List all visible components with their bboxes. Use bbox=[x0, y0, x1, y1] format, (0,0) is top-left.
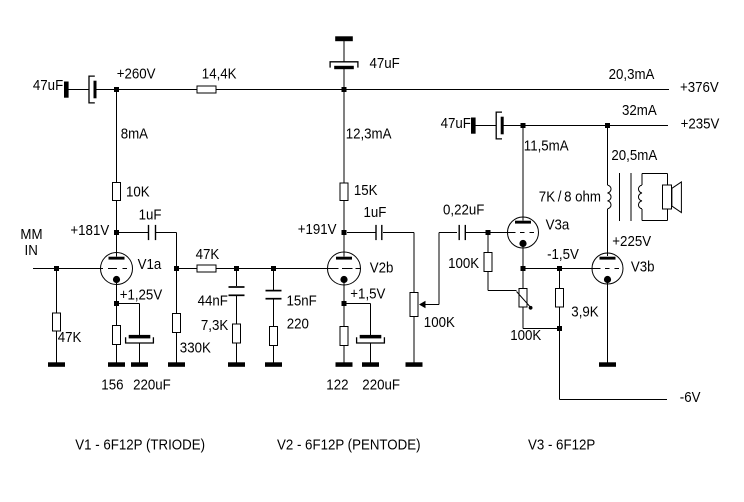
svg-text:330K: 330K bbox=[180, 340, 212, 356]
svg-text:+225V: +225V bbox=[612, 234, 652, 250]
svg-text:V2b: V2b bbox=[370, 260, 394, 276]
svg-text:14,4K: 14,4K bbox=[202, 66, 237, 82]
svg-text:-6V: -6V bbox=[680, 390, 701, 406]
svg-text:47uF: 47uF bbox=[370, 56, 400, 72]
svg-text:V1 - 6F12P (TRIODE): V1 - 6F12P (TRIODE) bbox=[75, 437, 205, 453]
svg-text:220uF: 220uF bbox=[133, 377, 171, 393]
svg-text:+1,25V: +1,25V bbox=[120, 287, 163, 303]
svg-text:47K: 47K bbox=[58, 329, 82, 345]
svg-text:V3b: V3b bbox=[631, 259, 655, 275]
svg-text:1uF: 1uF bbox=[139, 207, 162, 223]
svg-text:10K: 10K bbox=[126, 184, 150, 200]
svg-text:15nF: 15nF bbox=[287, 293, 317, 309]
svg-text:+376V: +376V bbox=[680, 80, 720, 96]
svg-text:15K: 15K bbox=[354, 182, 378, 198]
svg-text:MM: MM bbox=[20, 226, 42, 242]
svg-text:220: 220 bbox=[287, 316, 309, 332]
svg-text:+1,5V: +1,5V bbox=[350, 286, 386, 302]
svg-text:100K: 100K bbox=[510, 328, 542, 344]
svg-text:-1,5V: -1,5V bbox=[547, 247, 580, 263]
svg-text:20,5mA: 20,5mA bbox=[611, 148, 658, 164]
svg-text:100K: 100K bbox=[424, 315, 456, 331]
svg-text:20,3mA: 20,3mA bbox=[609, 67, 656, 83]
svg-text:V3 - 6F12P: V3 - 6F12P bbox=[528, 437, 595, 453]
svg-text:122: 122 bbox=[326, 377, 348, 393]
svg-text:+181V: +181V bbox=[70, 223, 110, 239]
svg-text:47uF: 47uF bbox=[33, 78, 63, 94]
svg-text:7K / 8 ohm: 7K / 8 ohm bbox=[539, 189, 601, 205]
svg-text:V2 - 6F12P (PENTODE): V2 - 6F12P (PENTODE) bbox=[277, 437, 421, 453]
svg-text:+191V: +191V bbox=[298, 221, 338, 237]
svg-text:IN: IN bbox=[25, 242, 38, 258]
svg-text:3,9K: 3,9K bbox=[571, 304, 599, 320]
svg-text:100K: 100K bbox=[448, 255, 480, 271]
svg-text:7,3K: 7,3K bbox=[201, 318, 229, 334]
svg-text:8mA: 8mA bbox=[121, 126, 149, 142]
svg-text:1uF: 1uF bbox=[364, 204, 387, 220]
svg-text:12,3mA: 12,3mA bbox=[346, 126, 393, 142]
svg-text:220uF: 220uF bbox=[362, 377, 400, 393]
svg-text:V3a: V3a bbox=[546, 217, 570, 233]
svg-text:+260V: +260V bbox=[117, 66, 157, 82]
svg-text:156: 156 bbox=[101, 377, 123, 393]
svg-text:0,22uF: 0,22uF bbox=[443, 202, 484, 218]
svg-text:32mA: 32mA bbox=[622, 103, 657, 119]
svg-text:+235V: +235V bbox=[681, 116, 721, 132]
svg-text:V1a: V1a bbox=[138, 256, 162, 272]
svg-text:47uF: 47uF bbox=[441, 116, 471, 132]
svg-text:47K: 47K bbox=[196, 247, 220, 263]
svg-text:44nF: 44nF bbox=[198, 293, 228, 309]
svg-text:11,5mA: 11,5mA bbox=[524, 138, 570, 154]
